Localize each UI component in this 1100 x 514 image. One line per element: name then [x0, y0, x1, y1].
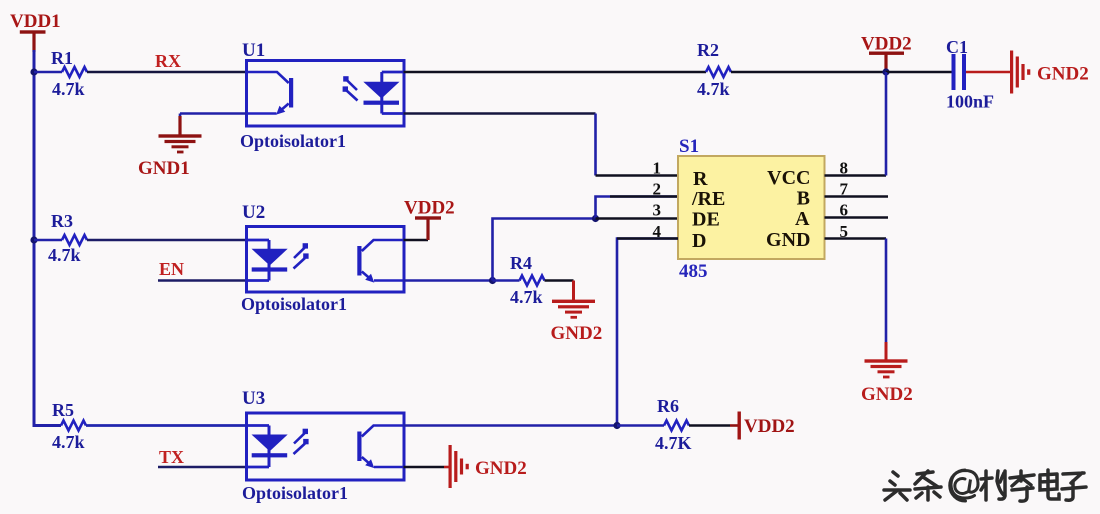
svg-text:4.7k: 4.7k — [697, 79, 730, 99]
svg-text:4.7k: 4.7k — [52, 432, 85, 452]
wire left rail — [33, 50, 36, 427]
wire junction to R6 — [617, 424, 664, 427]
resistor R2 — [697, 40, 731, 99]
node VDD2 junction — [882, 68, 889, 75]
svg-text:R6: R6 — [657, 396, 679, 416]
svg-text:2: 2 — [653, 180, 662, 199]
svg-text:4.7k: 4.7k — [52, 79, 85, 99]
wire R3 to U2 — [87, 239, 247, 242]
svg-text:R4: R4 — [510, 253, 532, 273]
wire U3 emitter to GND2 — [404, 466, 445, 469]
svg-text:DE: DE — [692, 209, 720, 231]
op-amp U1 optoisolator — [240, 40, 404, 151]
svg-text:GND2: GND2 — [1037, 64, 1089, 85]
node R6 junction — [613, 422, 620, 429]
resistor R6 — [655, 396, 692, 453]
svg-text:Optoisolator1: Optoisolator1 — [240, 131, 346, 151]
svg-text:VCC: VCC — [767, 167, 810, 189]
wire rail bottom corner to R5 — [33, 424, 62, 427]
IC S1 485 — [678, 136, 825, 282]
svg-text:4.7k: 4.7k — [510, 287, 543, 307]
diode LED U3 — [247, 426, 309, 468]
svg-text:VDD2: VDD2 — [404, 198, 455, 219]
node VDD1 rail / R1 junction — [30, 68, 37, 75]
wire R4 to GND2 — [545, 279, 574, 282]
node R4 junction — [489, 277, 496, 284]
svg-text:4.7k: 4.7k — [48, 245, 81, 265]
svg-text:GND2: GND2 — [861, 384, 913, 405]
svg-text:A: A — [795, 208, 810, 230]
svg-text:100nF: 100nF — [946, 92, 994, 112]
svg-text:R5: R5 — [52, 400, 74, 420]
svg-text:1: 1 — [653, 159, 662, 178]
power VDD2 top — [861, 34, 912, 73]
ground GND2 at U3 — [449, 445, 527, 488]
wire pin8 to VDD2 rail — [825, 174, 887, 177]
svg-text:VDD1: VDD1 — [10, 11, 61, 32]
wire C1 to GND2 — [966, 71, 1010, 74]
resistor R5 — [52, 400, 86, 452]
wire R1 to U1 pin (RX) — [87, 71, 247, 74]
wire U2 emitter to R4 junction — [404, 279, 493, 282]
pin names S1 — [691, 167, 811, 252]
wire pin5 to GND2 — [825, 237, 887, 240]
power VDD2 mid — [404, 198, 455, 241]
svg-text:VDD2: VDD2 — [744, 416, 795, 437]
wire DE node to pin2 — [596, 197, 679, 219]
wire U3 collector to R6 — [404, 424, 618, 427]
wire pin6 A stub — [825, 216, 889, 219]
wire U1 lower-right pin to S1 pin1 — [404, 112, 596, 115]
svg-text:B: B — [797, 188, 810, 210]
wire rail to R3 — [34, 239, 62, 242]
svg-text:TX: TX — [159, 447, 184, 467]
resistor R1 — [51, 48, 87, 99]
ground GND2 bottom — [861, 359, 913, 405]
watermark 头条@桃李电子 — [884, 470, 1086, 501]
wire TX to U3 — [158, 466, 247, 469]
ground GND2 top right — [1010, 51, 1089, 94]
svg-text:U1: U1 — [242, 40, 265, 61]
wire R6 to VDD2 — [689, 424, 730, 427]
svg-text:D: D — [692, 230, 706, 252]
svg-text:4.7K: 4.7K — [655, 433, 692, 453]
node DE junction — [592, 215, 599, 222]
wire VDD2 node to C1 — [886, 71, 952, 74]
capacitor C1 — [946, 37, 994, 112]
svg-text:R3: R3 — [51, 211, 73, 231]
ground GND1 — [138, 116, 202, 179]
svg-text:VDD2: VDD2 — [861, 34, 912, 55]
wire U1 lower-left pin to GND1 — [180, 112, 247, 115]
wire DE node to pin3 — [596, 217, 679, 220]
svg-text:GND2: GND2 — [475, 458, 527, 479]
transistor U3 output — [357, 426, 403, 469]
svg-text:3: 3 — [653, 201, 662, 220]
svg-text:U2: U2 — [242, 202, 265, 223]
svg-text:/RE: /RE — [691, 188, 725, 210]
svg-text:EN: EN — [159, 259, 184, 279]
wire junction to R4 — [493, 279, 520, 282]
op-amp U3 optoisolator — [242, 388, 404, 503]
svg-text:R: R — [693, 168, 708, 190]
svg-text:GND1: GND1 — [138, 158, 190, 179]
wire pin4 down to R6 row — [617, 239, 678, 426]
wire EN to U2 — [158, 279, 247, 282]
resistor R3 — [48, 211, 87, 265]
transistor U2 output — [357, 240, 403, 283]
resistor R4 — [510, 253, 545, 307]
wire junction up and to DE node — [493, 219, 596, 281]
node junction R3 rail — [30, 236, 37, 243]
wire U2 collector to VDD2 — [404, 239, 429, 242]
power VDD1 — [10, 11, 61, 52]
pin numbers S1 — [653, 159, 849, 242]
op-amp U2 optoisolator — [241, 202, 404, 314]
svg-text:S1: S1 — [679, 136, 699, 157]
svg-text:R1: R1 — [51, 48, 73, 68]
svg-text:Optoisolator1: Optoisolator1 — [241, 294, 347, 314]
svg-text:GND2: GND2 — [551, 323, 603, 344]
wire pin7 B stub — [825, 195, 889, 198]
power VDD2 right — [738, 412, 795, 440]
wire R2 to VDD2 node — [731, 71, 886, 74]
svg-text:R2: R2 — [697, 40, 719, 60]
wire U1 upper-right pin to R2 — [404, 71, 707, 74]
diode LED U1 — [343, 72, 404, 114]
svg-text:RX: RX — [155, 51, 181, 71]
svg-text:U3: U3 — [242, 388, 265, 409]
transistor U1 phototransistor — [247, 72, 294, 115]
ground GND2 mid — [551, 300, 603, 344]
diode LED U2 — [247, 240, 309, 281]
svg-text:Optoisolator1: Optoisolator1 — [242, 483, 348, 503]
svg-text:485: 485 — [679, 261, 708, 282]
wire rail to R1 — [34, 71, 62, 74]
wire R5 to U3 — [86, 424, 247, 427]
svg-text:GND: GND — [766, 229, 810, 251]
